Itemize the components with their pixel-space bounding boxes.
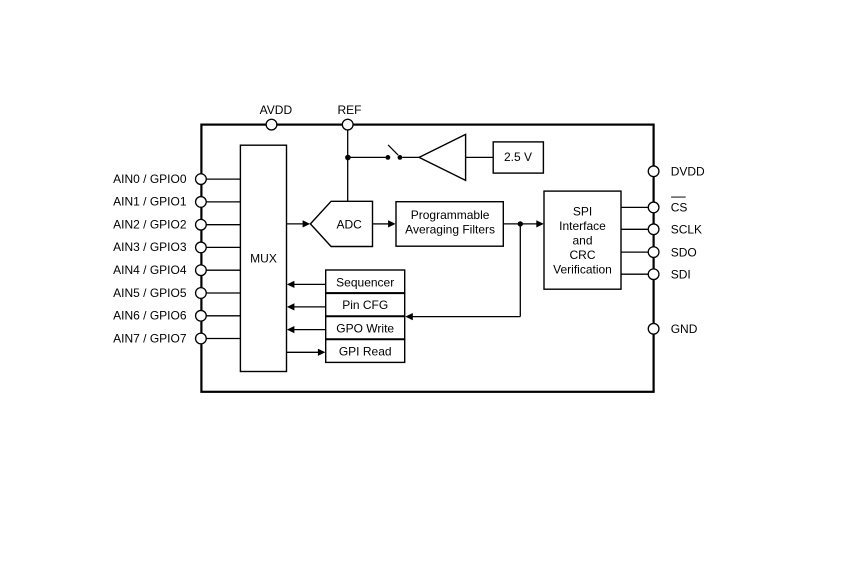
wire SPI to SDO pin	[621, 251, 648, 253]
wire AIN2 to MUX	[206, 224, 240, 226]
pin AVDD	[260, 103, 293, 130]
wire pin CFG to MUX with arrow	[287, 303, 326, 310]
svg-text:Verification: Verification	[553, 262, 612, 276]
pin SDI	[648, 268, 690, 282]
wire AIN0 to MUX	[206, 178, 240, 180]
wire AIN1 to MUX	[206, 201, 240, 203]
svg-text:AIN0 / GPIO0: AIN0 / GPIO0	[113, 172, 187, 186]
multiplexer MUX	[240, 145, 286, 371]
GPO write block	[326, 316, 405, 339]
separator sequencer / pin CFG	[326, 292, 405, 294]
svg-text:SPI: SPI	[573, 204, 592, 218]
svg-text:AIN7 / GPIO7: AIN7 / GPIO7	[113, 331, 187, 345]
outer device boundary	[201, 125, 653, 392]
svg-text:SDI: SDI	[671, 268, 691, 282]
svg-text:Interface: Interface	[559, 219, 606, 233]
pin AIN2/GPIO2	[113, 218, 206, 232]
wire AIN6 to MUX	[206, 315, 240, 317]
pin CFG block	[326, 293, 405, 316]
svg-text:CS: CS	[671, 201, 688, 215]
svg-text:ADC: ADC	[337, 218, 363, 232]
pin SCLK	[648, 223, 702, 237]
wire REF to ADC	[347, 130, 349, 201]
svg-text:AIN4 / GPIO4: AIN4 / GPIO4	[113, 263, 187, 277]
wire AIN5 to MUX	[206, 292, 240, 294]
buffer amplifier U1	[419, 134, 466, 180]
wire MUX to GPI read with arrow	[287, 349, 326, 356]
wire SPI to SCLK pin	[621, 228, 648, 230]
wire switch to buffer	[402, 156, 419, 158]
svg-text:Averaging Filters: Averaging Filters	[405, 223, 495, 237]
feedback wire SPI net down	[519, 224, 521, 317]
svg-text:SCLK: SCLK	[671, 223, 702, 237]
wire AIN4 to MUX	[206, 269, 240, 271]
svg-text:GPI Read: GPI Read	[339, 344, 392, 358]
sequencer block	[326, 270, 405, 293]
svg-text:REF: REF	[338, 103, 362, 117]
wire filters to SPI with arrow	[503, 220, 544, 227]
svg-text:GND: GND	[671, 322, 698, 336]
svg-text:Pin CFG: Pin CFG	[342, 298, 388, 312]
wire junction to switch	[348, 156, 386, 158]
2.5 V reference block	[493, 142, 543, 173]
pin AIN1/GPIO1	[113, 195, 206, 209]
svg-text:AIN3 / GPIO3: AIN3 / GPIO3	[113, 240, 187, 254]
svg-text:Programmable: Programmable	[411, 208, 490, 222]
svg-text:Sequencer: Sequencer	[336, 276, 394, 290]
pin CS (active low)	[648, 197, 687, 215]
svg-text:CRC: CRC	[570, 248, 596, 262]
wire GPO write to MUX with arrow	[287, 326, 326, 333]
wire ADC to filters with arrow	[373, 220, 396, 227]
pin AIN4/GPIO4	[113, 263, 206, 277]
junction on filter output net	[518, 221, 523, 226]
pin REF	[338, 103, 362, 130]
wire sequencer to MUX with arrow	[287, 281, 326, 288]
wire buffer to 2.5V reference	[466, 156, 494, 158]
programmable averaging filters block	[396, 202, 503, 247]
GPI read block	[326, 339, 405, 362]
separator GPO write / GPI read	[326, 338, 405, 340]
svg-text:DVDD: DVDD	[671, 165, 705, 179]
svg-text:GPO Write: GPO Write	[336, 321, 394, 335]
pin SDO	[648, 245, 696, 259]
feedback wire to register stack with arrow	[405, 313, 520, 320]
switch S1 (open)	[386, 145, 403, 160]
pin AIN3/GPIO3	[113, 240, 206, 254]
pin AIN7/GPIO7	[113, 331, 206, 345]
wire SPI to SDI pin	[621, 273, 648, 275]
svg-text:AIN1 / GPIO1: AIN1 / GPIO1	[113, 195, 187, 209]
pin DVDD	[648, 165, 705, 179]
svg-text:AVDD: AVDD	[260, 103, 293, 117]
wire AIN7 to MUX	[206, 338, 240, 340]
pin AIN5/GPIO5	[113, 286, 206, 300]
pin GND	[648, 322, 697, 336]
ADC	[310, 201, 372, 246]
svg-text:2.5 V: 2.5 V	[504, 150, 532, 164]
pin AIN0/GPIO0	[113, 172, 206, 186]
svg-text:AIN2 / GPIO2: AIN2 / GPIO2	[113, 218, 187, 232]
SPI interface block	[544, 191, 621, 289]
wire MUX to ADC with arrow	[287, 220, 311, 227]
svg-text:and: and	[572, 233, 592, 247]
svg-text:AIN6 / GPIO6: AIN6 / GPIO6	[113, 309, 187, 323]
wire SPI to CS pin	[621, 206, 648, 208]
wire AIN3 to MUX	[206, 246, 240, 248]
svg-text:MUX: MUX	[250, 251, 277, 265]
pin AIN6/GPIO6	[113, 309, 206, 323]
separator pin CFG / GPO write	[326, 315, 405, 317]
svg-text:AIN5 / GPIO5: AIN5 / GPIO5	[113, 286, 187, 300]
svg-text:SDO: SDO	[671, 245, 697, 259]
junction on REF net	[345, 155, 351, 161]
